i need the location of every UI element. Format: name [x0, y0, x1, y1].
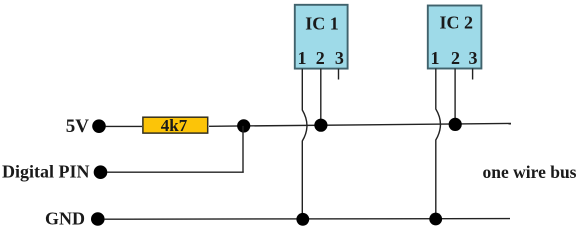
svg-text:1: 1 [431, 48, 440, 68]
wire U2 pin 1 to GND bus, hop over 5V bus [436, 69, 441, 220]
node 5V terminal [92, 119, 106, 133]
resistor R1 [143, 117, 208, 133]
wire Digital PIN riser to 5V junction [242, 126, 244, 173]
svg-text:5V: 5V [66, 116, 90, 137]
svg-text:IC 1: IC 1 [305, 13, 339, 33]
IC U2 body [428, 6, 482, 69]
svg-text:Digital PIN: Digital PIN [2, 162, 90, 182]
svg-text:GND: GND [45, 209, 85, 229]
junction node: U2 pin 2 on 5V bus [449, 118, 462, 131]
wire U1 pin 2 to 5V bus [320, 69, 322, 126]
wire 5V bus (resistor to right end) [209, 123, 511, 126]
wire U2 pin 3 stub [472, 69, 474, 80]
svg-text:3: 3 [469, 48, 478, 68]
junction node: U2 pin 1 on GND bus [429, 213, 442, 226]
wire U1 pin 3 stub [338, 69, 340, 80]
svg-text:IC 2: IC 2 [440, 13, 474, 33]
junction node: Digital PIN riser on 5V bus [237, 119, 250, 132]
wire U2 pin 2 to 5V bus [454, 69, 456, 125]
svg-text:2: 2 [316, 48, 325, 68]
svg-text:3: 3 [335, 48, 344, 68]
junction node: U1 pin 2 on 5V bus [314, 119, 327, 132]
junction node: U1 pin 1 on GND bus [296, 213, 309, 226]
wire GND bus [104, 218, 510, 221]
wire Digital PIN horizontal [107, 171, 244, 173]
wire 5V terminal to resistor R1 [106, 125, 143, 127]
IC U1 body [295, 5, 348, 69]
node GND terminal [91, 212, 105, 226]
node Digital PIN terminal [94, 165, 108, 179]
svg-text:1: 1 [298, 48, 307, 68]
svg-text:4k7: 4k7 [161, 116, 188, 135]
svg-text:2: 2 [451, 48, 460, 68]
wire U1 pin 1 to GND bus, hop over 5V bus [302, 69, 307, 220]
svg-text:one wire bus: one wire bus [483, 162, 577, 182]
